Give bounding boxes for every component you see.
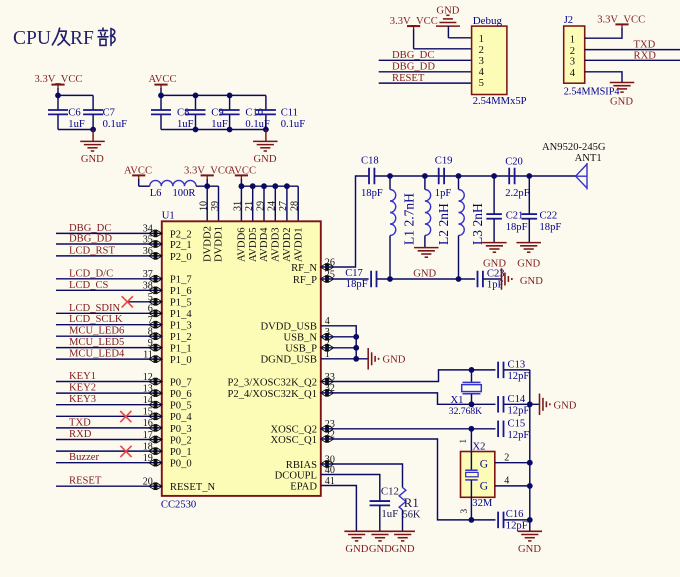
svg-text:LCD_SCLK: LCD_SCLK	[69, 314, 123, 325]
pin 16 P0_3 net TXD	[56, 427, 162, 429]
svg-text:9: 9	[148, 338, 153, 349]
svg-text:LCD_CS: LCD_CS	[69, 280, 109, 291]
capacitor C8	[151, 109, 171, 111]
svg-text:L1: L1	[402, 230, 417, 245]
svg-text:GND: GND	[554, 400, 577, 411]
svg-text:GND: GND	[518, 544, 541, 555]
svg-text:24: 24	[267, 201, 278, 211]
wire	[379, 71, 472, 73]
wire	[58, 94, 93, 96]
svg-text:C11: C11	[281, 108, 298, 119]
svg-text:18pF: 18pF	[346, 279, 368, 290]
ground (C12)	[368, 530, 393, 532]
svg-text:2nH: 2nH	[470, 203, 485, 227]
svg-text:18pF: 18pF	[361, 188, 383, 199]
wire pin2 of X2	[495, 462, 530, 464]
svg-text:AVDD4: AVDD4	[259, 227, 270, 262]
svg-text:12pF: 12pF	[506, 521, 528, 532]
svg-text:Debug: Debug	[473, 15, 503, 27]
svg-text:12pF: 12pF	[508, 405, 530, 416]
pin 5 P1_5	[127, 301, 162, 303]
svg-text:2: 2	[479, 45, 484, 56]
svg-text:1uF: 1uF	[68, 119, 85, 130]
no-ERC marker X (P1_5)	[122, 296, 133, 307]
svg-text:31: 31	[233, 201, 244, 211]
wire	[504, 403, 540, 405]
svg-text:6: 6	[148, 304, 153, 315]
svg-text:0.1uF: 0.1uF	[103, 119, 128, 130]
IC U1 CC2530	[162, 221, 321, 496]
wire	[196, 185, 218, 187]
svg-text:X1: X1	[451, 395, 464, 406]
svg-text:P1_5: P1_5	[170, 298, 192, 309]
svg-text:XOSC_Q1: XOSC_Q1	[270, 435, 317, 446]
svg-text:P0_1: P0_1	[170, 447, 192, 458]
wire DVDD_USB group	[321, 326, 368, 359]
svg-text:AVDD6: AVDD6	[237, 227, 248, 262]
inductor L1 2.7nH	[389, 176, 391, 190]
ground	[265, 130, 267, 142]
svg-text:DBG_DD: DBG_DD	[69, 234, 112, 245]
svg-text:C16: C16	[506, 509, 524, 520]
wire pin3 RXD	[585, 59, 680, 61]
svg-text:2.2pF: 2.2pF	[505, 188, 530, 199]
svg-text:2: 2	[570, 46, 575, 57]
svg-text:L2: L2	[436, 230, 451, 245]
svg-text:12: 12	[143, 372, 153, 383]
svg-text:GND: GND	[413, 269, 436, 280]
svg-text:C14: C14	[508, 394, 526, 405]
wire pin2	[414, 48, 472, 50]
svg-text:18pF: 18pF	[540, 222, 562, 233]
no-ERC marker X (P0_1)	[120, 446, 131, 457]
svg-text:P1_6: P1_6	[170, 286, 192, 297]
wire pin4 of X2	[495, 485, 530, 487]
wire RF bottom rail	[377, 278, 475, 280]
pin 20 RESET_N net RESET	[56, 485, 162, 487]
connector Debug 2.54MMx5P	[472, 26, 507, 94]
svg-text:P2_0: P2_0	[170, 252, 192, 263]
wire RF top rail	[374, 175, 575, 177]
svg-text:GND: GND	[392, 544, 415, 555]
capacitor C13 12pF	[497, 362, 499, 379]
svg-text:17: 17	[143, 430, 153, 441]
capacitor C20 2.2pF	[508, 168, 510, 185]
svg-text:2: 2	[504, 453, 509, 464]
svg-text:35: 35	[143, 234, 153, 245]
wire pin32 net	[321, 393, 496, 404]
svg-text:7: 7	[148, 315, 153, 326]
pin 37 P1_7 net LCD_D/C	[56, 278, 162, 280]
pin 35 P2_1 net DBG_DD	[56, 243, 162, 245]
svg-text:20: 20	[143, 477, 153, 488]
svg-text:39: 39	[210, 201, 221, 211]
svg-text:ANT1: ANT1	[575, 153, 602, 164]
wire pin1	[448, 37, 471, 39]
svg-text:C21: C21	[506, 210, 524, 221]
svg-text:KEY1: KEY1	[69, 371, 96, 382]
svg-text:36: 36	[143, 246, 153, 257]
svg-text:5: 5	[479, 78, 484, 89]
ground (DGND_USB)	[367, 348, 369, 370]
wire RF_P	[321, 278, 369, 280]
wire pin39 riser	[218, 186, 220, 221]
svg-text:12pF: 12pF	[508, 430, 530, 441]
svg-text:EPAD: EPAD	[290, 481, 317, 492]
svg-text:4: 4	[570, 68, 576, 79]
svg-text:C15: C15	[508, 419, 526, 430]
ground (J2)	[610, 82, 635, 84]
svg-text:2.54MMx5P: 2.54MMx5P	[473, 96, 527, 107]
svg-text:GND: GND	[81, 154, 104, 165]
ground (L2)	[414, 247, 439, 249]
svg-text:RF_P: RF_P	[293, 275, 317, 286]
wire EPAD net	[321, 486, 357, 532]
svg-text:RESET_N: RESET_N	[170, 482, 216, 493]
svg-text:18pF: 18pF	[506, 222, 528, 233]
pin 38 P1_6 net LCD_CS	[56, 289, 162, 291]
svg-text:4: 4	[479, 67, 485, 78]
svg-text:MCU_LED4: MCU_LED4	[69, 349, 125, 360]
svg-text:21: 21	[244, 201, 255, 211]
svg-text:AVCC: AVCC	[149, 74, 177, 85]
svg-text:J2: J2	[564, 15, 573, 26]
svg-text:32.768K: 32.768K	[449, 406, 482, 417]
pin 9 P1_1 net MCU_LED5	[56, 347, 162, 349]
svg-text:P1_4: P1_4	[170, 309, 192, 320]
svg-text:DCOUPL: DCOUPL	[275, 470, 317, 481]
svg-text:P2_4/XOSC32K_Q1: P2_4/XOSC32K_Q1	[228, 389, 317, 400]
svg-text:RF_N: RF_N	[291, 263, 317, 274]
svg-text:1pF: 1pF	[435, 188, 452, 199]
wire pin23 net	[321, 428, 496, 430]
pin 7 P1_3 net LCD_SCLK	[56, 324, 162, 326]
svg-text:AVDD5: AVDD5	[248, 227, 259, 262]
svg-text:1: 1	[570, 34, 575, 45]
resistor R1 56K	[399, 488, 406, 510]
svg-text:56K: 56K	[403, 510, 421, 521]
connector J2 2.54MMSIP4	[564, 26, 585, 83]
pin 8 P1_2 net MCU_LED6	[56, 335, 162, 337]
svg-text:P0_3: P0_3	[170, 424, 192, 435]
svg-text:AN9520-245G: AN9520-245G	[542, 142, 606, 153]
svg-text:1uF: 1uF	[211, 119, 228, 130]
svg-text:DGND_USB: DGND_USB	[260, 355, 317, 366]
svg-text:34: 34	[143, 224, 153, 235]
svg-text:P0_4: P0_4	[170, 412, 192, 423]
ground (EPAD)	[344, 530, 369, 532]
svg-text:P1_3: P1_3	[170, 321, 192, 332]
svg-text:KEY3: KEY3	[69, 394, 96, 405]
svg-text:DVDD1: DVDD1	[214, 226, 225, 262]
svg-text:2.7nH: 2.7nH	[402, 193, 417, 227]
svg-text:AVDD3: AVDD3	[271, 227, 282, 262]
svg-text:27: 27	[278, 201, 289, 211]
svg-text:GND: GND	[345, 544, 368, 555]
pin 6 P1_4 net LCD_SDIN	[56, 312, 162, 314]
svg-text:LCD_D/C: LCD_D/C	[69, 268, 113, 279]
svg-text:P0_2: P0_2	[170, 435, 192, 446]
capacitor C6	[48, 109, 68, 111]
svg-text:CPU: CPU	[13, 28, 51, 49]
svg-text:DVDD_USB: DVDD_USB	[260, 322, 317, 333]
svg-text:P0_5: P0_5	[170, 401, 192, 412]
svg-text:DBG_DD: DBG_DD	[392, 62, 435, 73]
capacitor C17 18pF	[370, 271, 372, 288]
svg-text:32M: 32M	[472, 498, 493, 509]
svg-text:P0_6: P0_6	[170, 389, 192, 400]
svg-text:3: 3	[459, 509, 469, 514]
svg-text:LCD_SDIN: LCD_SDIN	[69, 303, 121, 314]
svg-text:RBIAS: RBIAS	[286, 460, 317, 471]
wire AVCC rail	[241, 185, 298, 187]
wire	[57, 114, 59, 129]
svg-text:DBG_DC: DBG_DC	[392, 50, 434, 61]
capacitor C9	[186, 109, 206, 111]
inductor L2 2nH	[424, 176, 426, 190]
pin 34 P2_2 net DBG_DC	[56, 232, 162, 234]
ground (C21)	[482, 242, 507, 244]
svg-text:USB_N: USB_N	[283, 333, 317, 344]
svg-text:USB_P: USB_P	[285, 344, 317, 355]
svg-text:DBG_DC: DBG_DC	[69, 223, 111, 234]
svg-text:GND: GND	[254, 154, 277, 165]
ground (R1)	[390, 530, 415, 532]
no-ERC marker X (P0_4)	[120, 411, 131, 422]
svg-text:38: 38	[143, 281, 153, 292]
svg-text:29: 29	[255, 201, 266, 211]
capacitor C11	[256, 109, 276, 111]
crystal X1 32.768K	[471, 370, 473, 382]
inductor L6 100R	[150, 180, 196, 186]
svg-text:R1: R1	[404, 496, 419, 510]
svg-text:18: 18	[143, 441, 153, 452]
svg-text:RESET: RESET	[69, 476, 102, 487]
svg-text:G: G	[480, 458, 488, 470]
svg-text:2nH: 2nH	[436, 203, 451, 227]
svg-text:MCU_LED6: MCU_LED6	[69, 326, 124, 337]
ground (C14)	[539, 394, 541, 416]
wire	[379, 82, 472, 84]
svg-text:C7: C7	[103, 108, 115, 119]
svg-text:C20: C20	[505, 157, 523, 168]
wire pin4	[585, 72, 622, 83]
svg-text:1uF: 1uF	[177, 119, 194, 130]
svg-text:1: 1	[458, 439, 468, 444]
wire RBIAS net	[321, 464, 403, 488]
wire DCOUPL net	[321, 475, 380, 502]
capacitor C16 12pF	[471, 519, 495, 521]
svg-text:C12: C12	[381, 486, 399, 498]
svg-text:100R: 100R	[173, 188, 197, 199]
svg-text:RXD: RXD	[69, 429, 92, 440]
svg-text:DVDD2: DVDD2	[202, 226, 213, 262]
svg-text:MCU_LED5: MCU_LED5	[69, 337, 124, 348]
svg-text:L6: L6	[150, 188, 162, 199]
wire xtal rail	[529, 370, 531, 531]
svg-text:19: 19	[143, 453, 153, 464]
ground (C23)	[501, 268, 503, 290]
wire pin1	[585, 28, 622, 38]
ground (xtal rail)	[518, 530, 543, 532]
capacitor C10	[220, 109, 240, 111]
pin 12 P0_7 net KEY1	[56, 381, 162, 383]
svg-text:1uF: 1uF	[381, 508, 398, 520]
svg-text:14: 14	[143, 395, 153, 406]
svg-text:P2_2: P2_2	[170, 229, 192, 240]
wire	[379, 59, 472, 61]
svg-text:8: 8	[148, 327, 153, 338]
svg-text:G: G	[480, 481, 488, 493]
wire	[483, 278, 501, 280]
svg-text:11: 11	[143, 349, 153, 360]
pin 19 P0_0 net Buzzer	[56, 462, 162, 464]
svg-text:TXD: TXD	[634, 39, 656, 50]
svg-text:GND: GND	[520, 276, 543, 287]
svg-text:3: 3	[479, 56, 484, 67]
wire pin33 net	[321, 370, 496, 382]
svg-text:4: 4	[504, 476, 509, 487]
svg-text:CC2530: CC2530	[161, 500, 196, 511]
wire pin10 riser	[206, 186, 208, 221]
svg-text:15: 15	[143, 407, 153, 418]
svg-text:0.1uF: 0.1uF	[281, 119, 306, 130]
svg-text:RF: RF	[70, 28, 94, 49]
capacitor C12 1uF	[370, 500, 391, 502]
svg-text:C6: C6	[68, 108, 80, 119]
pin 36 P2_0 net LCD_RST	[56, 255, 162, 257]
wire RF_N riser	[321, 176, 369, 267]
svg-text:12pF: 12pF	[508, 371, 530, 382]
svg-text:C17: C17	[345, 268, 363, 279]
svg-text:GND: GND	[383, 354, 406, 365]
svg-text:3: 3	[570, 57, 575, 68]
capacitor C18 18pF	[368, 168, 370, 185]
capacitor C23 1pF	[477, 271, 479, 288]
svg-text:GND: GND	[610, 97, 633, 108]
crystal X2 32M	[470, 429, 472, 452]
svg-text:13: 13	[143, 383, 153, 394]
ground (C22)	[516, 242, 541, 244]
svg-text:5: 5	[148, 292, 153, 303]
capacitor C7	[83, 109, 103, 111]
capacitor C19 1pF	[438, 168, 440, 185]
svg-text:GND: GND	[517, 259, 540, 270]
svg-text:KEY2: KEY2	[69, 383, 96, 394]
svg-text:10: 10	[199, 201, 210, 211]
svg-text:P2_1: P2_1	[170, 240, 192, 251]
pin 13 P0_6 net KEY2	[56, 392, 162, 394]
pin 11 P1_0 net MCU_LED4	[56, 358, 162, 360]
svg-text:C13: C13	[508, 359, 526, 370]
svg-text:P1_1: P1_1	[170, 344, 192, 355]
capacitor C21 18pF	[493, 176, 495, 214]
svg-text:P1_2: P1_2	[170, 332, 192, 343]
svg-text:C19: C19	[435, 156, 453, 167]
svg-text:X2: X2	[473, 441, 486, 452]
capacitor C22 18pF	[528, 176, 530, 214]
svg-text:3.3V_VCC: 3.3V_VCC	[35, 74, 83, 85]
svg-text:U1: U1	[162, 211, 175, 222]
pin 14 P0_5 net KEY3	[56, 404, 162, 406]
svg-text:1: 1	[479, 34, 484, 45]
wire	[504, 369, 530, 371]
pin 18 P0_1	[56, 450, 162, 452]
svg-text:P0_0: P0_0	[170, 459, 192, 470]
wire pin2 TXD	[585, 49, 680, 51]
svg-text:Buzzer: Buzzer	[69, 452, 99, 463]
svg-text:37: 37	[143, 269, 153, 280]
pin 17 P0_2 net RXD	[56, 439, 162, 441]
svg-text:P1_0: P1_0	[170, 355, 192, 366]
svg-text:LCD_RST: LCD_RST	[69, 245, 115, 256]
svg-text:0.1uF: 0.1uF	[245, 119, 270, 130]
svg-text:GND: GND	[369, 544, 392, 555]
wire pin22 net	[321, 439, 472, 520]
svg-text:16: 16	[143, 418, 153, 429]
svg-text:C18: C18	[361, 156, 379, 167]
svg-text:AVDD1: AVDD1	[293, 227, 304, 262]
svg-text:C22: C22	[540, 210, 558, 221]
svg-text:TXD: TXD	[69, 417, 91, 428]
pin 15 P0_4	[56, 415, 162, 417]
capacitor C14 12pF	[497, 396, 499, 413]
svg-text:P0_7: P0_7	[170, 377, 192, 388]
svg-text:P1_7: P1_7	[170, 275, 192, 286]
svg-text:AVDD2: AVDD2	[282, 227, 293, 262]
inductor L3 2nH	[458, 176, 460, 190]
svg-text:P2_3/XOSC32K_Q2: P2_3/XOSC32K_Q2	[228, 377, 317, 388]
ground	[92, 130, 94, 142]
wire	[161, 94, 266, 96]
capacitor C15 12pF	[497, 421, 499, 438]
svg-text:28: 28	[290, 201, 301, 211]
